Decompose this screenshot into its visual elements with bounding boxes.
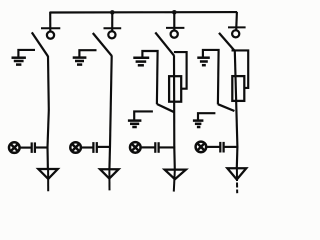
lamp HL1 — [9, 142, 20, 153]
wire cap2 to main — [97, 146, 111, 148]
switch blade QS3 — [155, 32, 174, 55]
capacitor C2 — [93, 142, 96, 153]
wire branch1 main vertical — [48, 56, 49, 170]
bushing circle branch2 — [108, 31, 115, 38]
bushing circle branch3 — [171, 30, 178, 37]
wire top bus — [50, 11, 237, 14]
cable termination branch4 — [227, 168, 246, 179]
wire branch4 bus drop — [235, 12, 238, 31]
bushing circle branch1 — [47, 31, 54, 38]
node junction bus-branch2 — [110, 10, 115, 15]
contact bar branch1 — [41, 27, 60, 29]
contact bar branch2 — [104, 27, 122, 29]
ground branch3 upper — [133, 58, 149, 66]
wire branch2 bus drop — [111, 12, 113, 32]
ground arm branch4 upper — [203, 50, 219, 105]
wire cap3 to main — [159, 146, 175, 148]
wire branch3 fuse tap — [174, 52, 187, 89]
fuse FU4 — [232, 76, 244, 101]
lamp HL4 — [196, 142, 207, 153]
wire branch2 bottom stub — [108, 170, 110, 190]
lamp HL2 — [70, 142, 81, 153]
cable termination branch2 — [100, 169, 119, 178]
wire branch4 main vertical — [235, 51, 238, 168]
wire lamp3 to cap3 — [140, 146, 155, 148]
ground arm branch3 upper — [142, 51, 157, 104]
ground arm branch3 lower — [134, 111, 153, 120]
bushing circle branch4 — [232, 30, 239, 37]
switch blade QS1 — [32, 32, 48, 56]
capacitor C4 — [220, 142, 223, 153]
ground branch4 upper — [197, 58, 210, 65]
wire branch4 fuse tap — [232, 50, 249, 88]
wire branch3 bottom stub — [174, 170, 175, 191]
wire lamp4 to cap4 — [206, 146, 220, 148]
ground arm branch4 lower — [198, 113, 215, 120]
contact bar branch4 — [228, 26, 246, 28]
switch blade QS2 — [93, 33, 112, 56]
ground arm branch2 — [79, 50, 96, 57]
ground branch3 lower — [128, 121, 141, 127]
capacitor C1 — [32, 142, 35, 153]
wire cap4 to main — [224, 146, 238, 148]
ground branch4 lower — [193, 121, 204, 127]
cable termination branch1 — [38, 169, 58, 179]
wire branch4 bottom stub — [236, 169, 238, 182]
fuse FU3 — [169, 76, 181, 102]
wire branch3 bus drop — [173, 12, 175, 31]
wire branch1 bottom stub — [47, 170, 49, 191]
cable termination branch3 — [165, 170, 186, 180]
capacitor C3 — [155, 142, 158, 153]
ground arm branch1 — [18, 50, 35, 58]
wire branch3 main vertical — [173, 55, 176, 170]
earthing blade branch3 — [157, 104, 174, 112]
ground branch2 — [73, 58, 87, 65]
lamp HL3 — [130, 142, 141, 153]
earthing blade branch4 — [218, 104, 235, 111]
wire lamp2 to cap2 — [81, 146, 93, 148]
wire branch1 bus drop — [49, 12, 51, 31]
switch blade QS4 — [219, 33, 235, 51]
ground branch1 — [12, 58, 26, 65]
node junction bus-branch3 — [172, 10, 177, 15]
wire branch2 main vertical — [109, 56, 111, 170]
wire lamp1 to cap1 — [19, 147, 31, 149]
contact bar branch3 — [166, 27, 184, 29]
wire cap1 to main — [36, 146, 49, 148]
